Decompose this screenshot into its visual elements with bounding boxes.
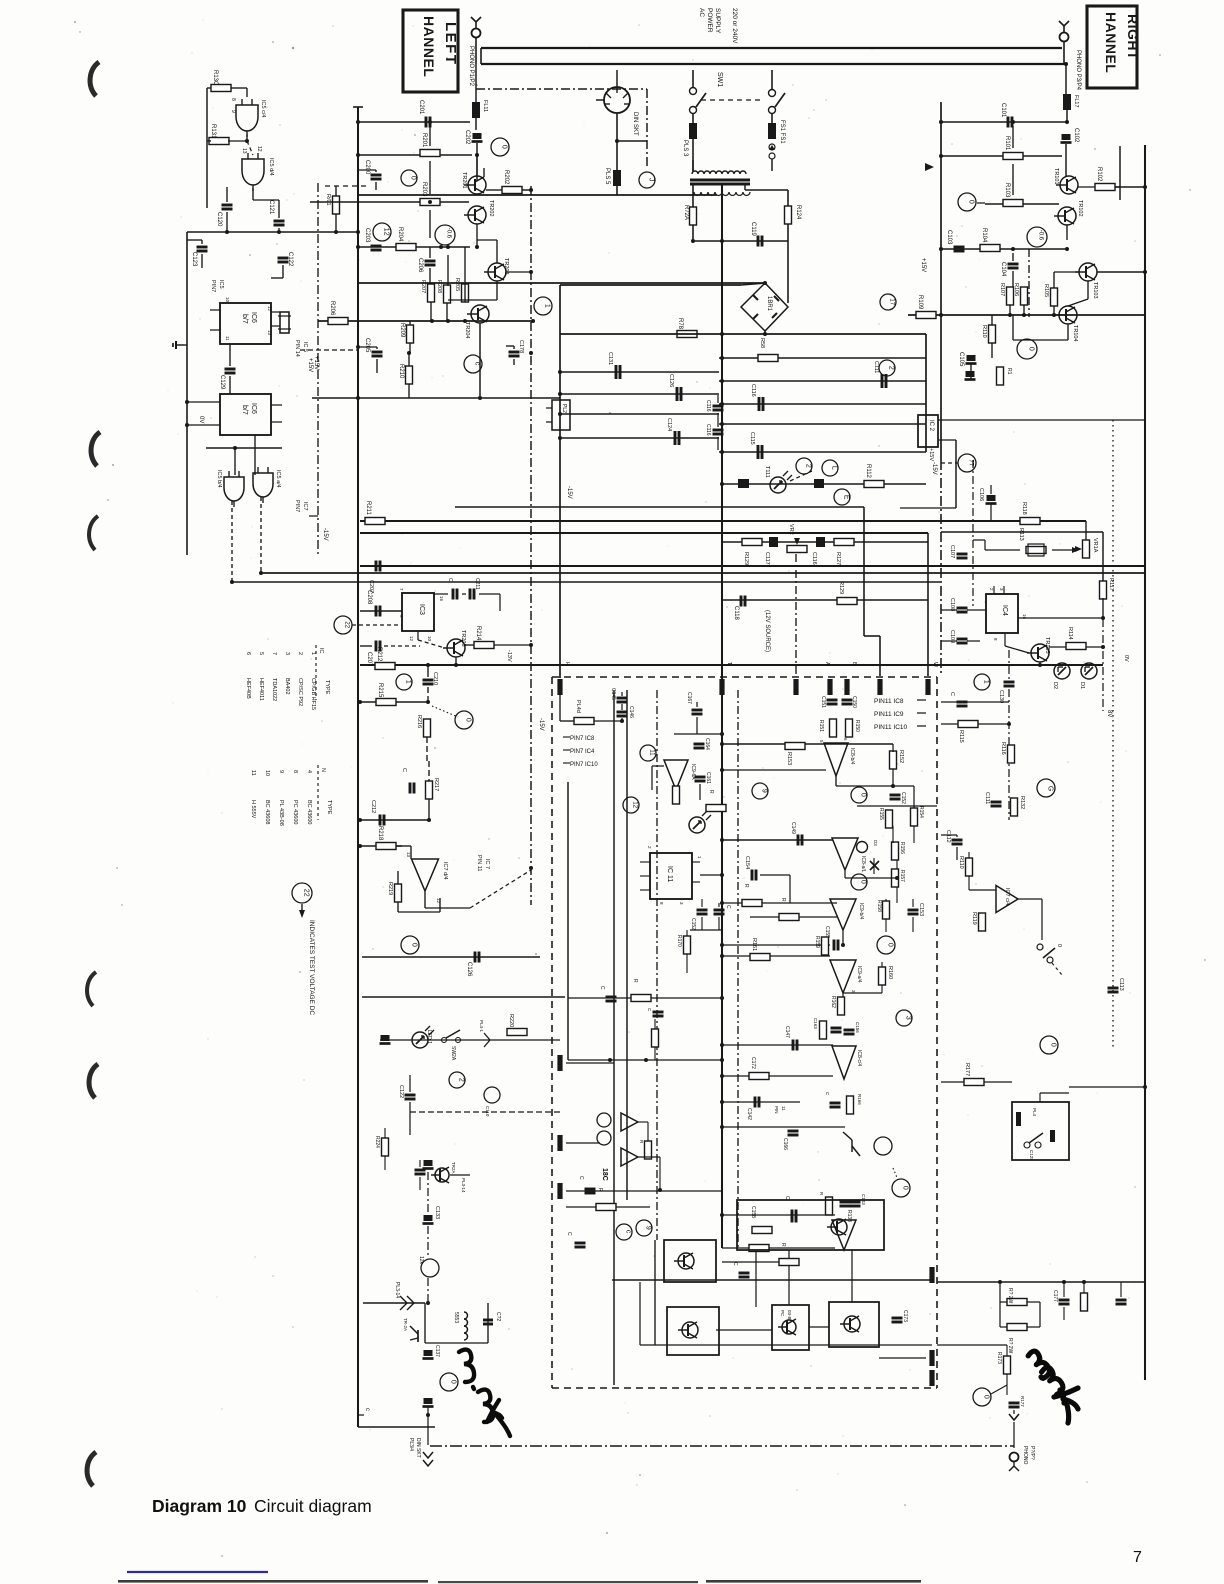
wire opamp to x531	[425, 866, 533, 908]
tank coil S553	[453, 1312, 468, 1340]
wire y770 row	[720, 768, 826, 772]
svg-text:C120: C120	[216, 212, 222, 227]
capacitor C155	[824, 926, 838, 951]
svg-text:R: R	[743, 884, 749, 888]
wire TR203 links	[477, 224, 533, 274]
svg-text:IC5 d/4: IC5 d/4	[268, 158, 274, 176]
svg-text:PIN11 IC10: PIN11 IC10	[874, 724, 908, 731]
wire mains drop a	[692, 70, 694, 124]
dashdot rail x738	[737, 690, 739, 1250]
box output pair left	[664, 1240, 716, 1282]
wire bus band y533	[360, 532, 928, 534]
svg-text:PHONO: PHONO	[1022, 1446, 1028, 1464]
svg-text:7: 7	[399, 588, 404, 591]
resistor R152	[890, 750, 905, 769]
switch SW2A	[442, 1030, 461, 1061]
svg-text:22: 22	[303, 889, 310, 897]
svg-text:HEF40B: HEF40B	[245, 678, 251, 699]
svg-text:12: 12	[256, 146, 262, 152]
label IC5 d/4	[268, 158, 274, 176]
svg-text:R115: R115	[958, 730, 964, 743]
svg-text:B: B	[851, 662, 857, 666]
wire opamp3 out	[845, 826, 914, 903]
svg-text:C113: C113	[1118, 978, 1124, 991]
svg-text:CP/SC P92: CP/SC P92	[297, 678, 303, 706]
wire C105 stub	[970, 315, 972, 380]
crystal C132	[278, 312, 291, 333]
svg-text:TDA1022: TDA1022	[271, 678, 277, 701]
svg-text:R173: R173	[996, 1352, 1002, 1364]
capacitor C133	[423, 1206, 441, 1224]
svg-text:R177: R177	[1020, 1396, 1025, 1407]
wire R218 to opamp	[396, 846, 411, 859]
pin T	[719, 662, 732, 695]
capacitor C161	[695, 772, 712, 784]
wire C109 link	[941, 640, 980, 642]
gate IC5 a/4	[253, 467, 273, 503]
svg-text:16: 16	[439, 596, 444, 602]
svg-text:TR102: TR102	[1077, 200, 1083, 217]
svg-text:C200: C200	[364, 160, 370, 175]
wire dash 22 to IC3	[352, 624, 402, 626]
resistor R212	[375, 647, 395, 670]
capacitor C112	[945, 830, 963, 844]
wire y846	[358, 844, 402, 848]
resistor R112	[864, 464, 884, 488]
resistor R184b	[652, 1019, 659, 1060]
svg-text:PHONO P3/P4: PHONO P3/P4	[1075, 50, 1081, 91]
svg-text:c: c	[625, 1230, 632, 1234]
IC3 box	[402, 593, 434, 631]
svg-text:R102: R102	[1096, 167, 1102, 182]
svg-text:IC 11: IC 11	[666, 866, 673, 882]
svg-text:PIN 11: PIN 11	[476, 855, 482, 871]
resistor R214	[474, 626, 494, 649]
RIGHT CHANNEL text	[1103, 12, 1141, 73]
svg-text:C178: C178	[518, 340, 524, 353]
label IC5 b/4	[216, 470, 222, 488]
resistor R161	[750, 938, 770, 961]
svg-text:220 or 240V: 220 or 240V	[731, 8, 738, 44]
resistor R159	[814, 936, 829, 955]
wire top phono line 1	[481, 47, 1062, 49]
svg-text:R129: R129	[743, 552, 749, 565]
IC6 divider box 1	[220, 303, 271, 344]
svg-text:C: C	[578, 1176, 584, 1180]
svg-text:R215: R215	[377, 683, 383, 698]
wire dash y350 pin14	[300, 349, 357, 351]
LED1	[412, 1026, 434, 1048]
label PIN7 IC7	[294, 500, 318, 516]
circled node 0i	[892, 1179, 910, 1197]
pin B	[844, 662, 857, 695]
label -13V	[506, 650, 512, 662]
binding mark 3	[89, 516, 98, 550]
svg-text:R103: R103	[1004, 183, 1010, 198]
resistor R217	[426, 778, 440, 799]
svg-text:7: 7	[1133, 1549, 1142, 1566]
svg-text:C116: C116	[750, 384, 756, 397]
svg-text:C152: C152	[690, 918, 696, 930]
wire supply rail y394	[558, 392, 719, 396]
resistor R108	[997, 367, 1013, 385]
capacitor C118b block	[814, 479, 824, 488]
svg-text:12k: 12k	[418, 1256, 424, 1265]
svg-text:2: 2	[888, 366, 895, 370]
wire C200 stub	[358, 170, 376, 190]
svg-text:R201: R201	[421, 133, 427, 148]
wire jack-R drop	[1063, 42, 1065, 64]
label 8V	[1106, 710, 1112, 717]
wire bus band y573	[261, 572, 1145, 574]
wire switch out	[1052, 963, 1062, 975]
svg-text:R177: R177	[964, 1063, 970, 1076]
svg-text:PLS 5: PLS 5	[604, 168, 610, 185]
svg-text:6: 6	[843, 738, 848, 741]
circled node 0j	[1040, 1036, 1058, 1054]
resistor R119b	[971, 912, 986, 931]
svg-text:DIN SKT: DIN SKT	[415, 1438, 421, 1458]
wire y1060 row	[568, 1058, 724, 1062]
pin B2	[877, 679, 882, 695]
svg-text:HANNEL: HANNEL	[421, 16, 437, 77]
svg-text:IC7: IC7	[302, 502, 308, 511]
phono socket P1/P2 (left input)	[471, 17, 481, 38]
label PIN11 IC9	[874, 711, 926, 718]
svg-text:11: 11	[250, 770, 256, 776]
label DIN SKT	[632, 112, 638, 136]
svg-text:VR2: VR2	[788, 524, 794, 535]
svg-text:10: 10	[225, 297, 230, 303]
gate IC5 c/4	[236, 99, 258, 137]
wire right stage verticals	[1011, 120, 1088, 340]
svg-text:PL3-14: PL3-14	[461, 1178, 466, 1193]
svg-text:C101: C101	[1000, 103, 1006, 118]
wire y917 row	[750, 916, 837, 918]
svg-text:C152: C152	[900, 792, 906, 804]
wire supply rail y424	[719, 422, 926, 426]
svg-text:R58: R58	[759, 338, 765, 348]
transistor TR201	[461, 172, 486, 194]
relay box	[1012, 1102, 1069, 1160]
svg-text:PIN7: PIN7	[210, 280, 216, 292]
label C119	[750, 222, 756, 237]
resistor R224	[374, 1136, 389, 1156]
label +15V a	[313, 356, 319, 370]
resistor R173	[996, 1352, 1011, 1374]
svg-text:FL11: FL11	[482, 100, 488, 112]
svg-text:R? 2W: R? 2W	[1007, 1288, 1013, 1304]
capacitor C108	[949, 598, 968, 612]
svg-text:R216: R216	[416, 715, 422, 728]
circled node E	[834, 489, 850, 505]
wire C120 link	[207, 187, 227, 232]
wire y903 row	[720, 901, 837, 905]
label SW1	[716, 72, 723, 87]
svg-text:R170: R170	[676, 935, 682, 947]
IC6 divider box 2	[220, 394, 271, 435]
svg-text:INDICATES TEST VOLTAGE DC: INDICATES TEST VOLTAGE DC	[308, 920, 315, 1015]
capacitor C104	[1000, 262, 1019, 277]
wire box column b	[788, 1250, 790, 1305]
svg-text:R119: R119	[971, 912, 977, 925]
resistor R127	[834, 539, 854, 566]
resistor R162	[830, 996, 845, 1015]
box output pair right2	[829, 1302, 879, 1347]
wire box column a	[755, 1250, 757, 1307]
IC2 box	[918, 415, 938, 447]
capacitor C166	[782, 1131, 799, 1150]
gate tri 2	[621, 1148, 638, 1166]
wire caps under IC11	[690, 899, 722, 930]
svg-text:A: A	[824, 662, 830, 666]
svg-text:R118: R118	[1021, 502, 1027, 515]
svg-text:10: 10	[264, 770, 270, 776]
wire R136 drop	[334, 186, 338, 234]
resistor R158	[876, 900, 890, 919]
svg-text:C210: C210	[432, 672, 438, 685]
svg-text:C107: C107	[949, 545, 955, 558]
transistor pair naked	[843, 1132, 860, 1156]
dashdot x428	[427, 1172, 429, 1303]
svg-text:C153: C153	[918, 903, 924, 916]
wire IC4 out y618	[1018, 616, 1105, 620]
svg-text:IC5 a/4: IC5 a/4	[275, 470, 281, 488]
svg-text:0: 0	[450, 1380, 457, 1384]
wire mains line y195	[358, 194, 717, 196]
wire left main bus	[353, 107, 363, 1427]
capacitor C146	[617, 706, 635, 718]
svg-text:CP/GB HF15: CP/GB HF15	[310, 678, 316, 710]
svg-text:R217: R217	[433, 778, 439, 791]
wire 77 link	[941, 462, 958, 464]
svg-text:C119: C119	[750, 222, 756, 237]
resistor R116	[1000, 742, 1015, 763]
wire x1120 stub	[1115, 146, 1120, 200]
label PIN 14 IC 5	[294, 340, 308, 357]
wire y1305 stub	[716, 1327, 829, 1330]
svg-text:PLS 3: PLS 3	[682, 140, 688, 157]
label DIN out	[408, 1438, 421, 1458]
wire y1102 row	[720, 1100, 800, 1104]
wire 0k link	[991, 1385, 1007, 1394]
svg-text:C205: C205	[364, 338, 370, 353]
resistor R210	[398, 364, 413, 384]
transistor TR101	[1053, 168, 1078, 194]
resistor R124	[785, 206, 792, 224]
capacitor C127	[949, 692, 968, 706]
opamp IC10 a	[832, 1220, 856, 1250]
resistor R206	[328, 301, 348, 325]
wire TR204 emitter down	[479, 323, 481, 398]
note text INDICATES TEST VOLTAGE DC	[308, 920, 315, 1015]
capacitor C132b	[668, 374, 681, 401]
svg-text:C123: C123	[191, 252, 197, 267]
label IC8-a/L	[860, 856, 866, 873]
caps x718 pair	[705, 400, 724, 436]
svg-text:R? 2W: R? 2W	[1007, 1338, 1013, 1354]
IC3 pin labels	[399, 588, 444, 642]
resistor R204	[396, 227, 416, 251]
circled node 12a	[373, 223, 391, 241]
IC11 pins	[640, 846, 702, 905]
svg-text:E: E	[843, 495, 850, 500]
page number 7	[1133, 1549, 1142, 1566]
resistor R215	[376, 683, 396, 706]
label IC6 b/7 (1)	[241, 312, 257, 324]
wire caps column	[620, 692, 624, 723]
svg-text:C131: C131	[607, 352, 613, 365]
wire R170 stub	[686, 930, 688, 973]
wire y1040	[380, 1039, 560, 1041]
wire y600 branch	[722, 599, 928, 601]
svg-text:R211: R211	[365, 501, 371, 516]
circled node -06b	[1027, 227, 1047, 247]
circled 181	[597, 1113, 611, 1145]
svg-text:C203: C203	[364, 228, 370, 243]
capacitor C213	[401, 768, 414, 794]
opamp IC9 b/4	[830, 899, 864, 930]
wire supply row y665	[360, 664, 1103, 666]
capacitor C201	[418, 100, 430, 128]
wire y1358 stub	[879, 1357, 926, 1359]
wire R112 out	[884, 483, 926, 485]
wire y702 right	[941, 701, 1009, 703]
bottom scan strip b	[438, 1581, 698, 1583]
svg-text:PIN: PIN	[774, 1106, 779, 1114]
wire dashdot test line top	[476, 88, 647, 90]
capacitor C116 block	[811, 537, 825, 565]
svg-text:R202: R202	[503, 170, 509, 185]
node y398 joins	[356, 396, 482, 400]
pin right b	[929, 1350, 934, 1366]
wire TR101 collector	[1078, 185, 1147, 189]
svg-text:C137: C137	[434, 1345, 440, 1357]
svg-text:TR103: TR103	[1092, 282, 1098, 299]
wire y232 link	[187, 230, 360, 234]
svg-text:R166: R166	[857, 1094, 862, 1105]
svg-text:C111: C111	[984, 792, 990, 804]
circled node 0g	[851, 874, 867, 890]
svg-text:R113: R113	[1018, 528, 1024, 541]
resistor R2W a	[1007, 1288, 1027, 1306]
svg-text:T111: T111	[764, 466, 770, 478]
svg-text:1BR1: 1BR1	[766, 296, 772, 312]
circled node T2	[974, 674, 990, 690]
gate IC5 d/4	[242, 153, 264, 191]
svg-text:R158: R158	[876, 900, 882, 912]
label PHONO out	[1022, 1446, 1035, 1464]
svg-text:C116: C116	[705, 424, 711, 436]
opamp IC9 6A	[664, 760, 696, 790]
wire x362 lower	[361, 957, 363, 1303]
capacitor C107	[949, 545, 968, 558]
resistor R110b	[958, 856, 973, 876]
diode pair X	[870, 858, 879, 874]
circled node 9a	[752, 783, 768, 799]
svg-text:R205: R205	[454, 278, 460, 291]
resistor R153	[785, 743, 805, 766]
svg-text:DIN SKT: DIN SKT	[632, 112, 638, 136]
svg-text:C: C	[949, 692, 955, 696]
wire y1345 right stub	[937, 1344, 1007, 1346]
wire y1345 center	[640, 1344, 932, 1346]
transistor TR103	[1075, 263, 1098, 299]
LEFT CHANNEL text	[421, 16, 459, 77]
circled node 17	[880, 294, 896, 310]
wire jack-L to stage	[475, 64, 477, 130]
capacitor C130	[998, 682, 1015, 703]
svg-text:C150: C150	[851, 696, 857, 708]
dashdot x1103b	[1102, 619, 1104, 711]
svg-text:R138: R138	[846, 1210, 852, 1222]
wire box column c	[851, 1250, 853, 1302]
wire y1215 row	[720, 1213, 835, 1217]
wire y1303	[363, 1301, 430, 1305]
wire y1248 row	[722, 1247, 835, 1249]
wire rail corner x560	[559, 285, 561, 678]
pin H	[557, 662, 570, 695]
capacitor C153b block	[738, 479, 749, 488]
capacitor C117 block	[764, 537, 778, 565]
circled node 2c	[449, 1072, 465, 1088]
svg-text:R: R	[780, 898, 786, 902]
svg-text:TR105: TR105	[1044, 637, 1050, 654]
connector chevron Y	[1009, 1414, 1019, 1420]
wire C205 link	[356, 345, 377, 373]
capacitor C149b	[578, 1176, 596, 1193]
pin VR2 in	[793, 679, 798, 695]
label -15V b	[538, 718, 544, 731]
wire y122 C201	[356, 120, 470, 124]
svg-text:PIN11 IC8: PIN11 IC8	[874, 698, 904, 705]
svg-text:0: 0	[1050, 1043, 1057, 1047]
svg-text:TR101: TR101	[1053, 168, 1059, 185]
label BR1	[766, 296, 772, 312]
svg-text:IC8-b/4: IC8-b/4	[849, 748, 855, 765]
circled C110	[484, 1087, 500, 1117]
label AC POWER SUPPLY	[698, 8, 721, 34]
svg-text:R207: R207	[420, 280, 426, 293]
wire C177 stub	[1062, 1280, 1066, 1320]
RIGHT CHANNEL label box	[1087, 6, 1137, 88]
resistor R106	[1013, 283, 1028, 305]
svg-text:C103: C103	[946, 230, 952, 245]
svg-text:+15V: +15V	[307, 358, 313, 372]
svg-text:PL2: PL2	[561, 404, 567, 413]
pin right c	[929, 1370, 934, 1386]
capacitor C126	[466, 952, 479, 978]
wire R224 stub	[384, 1128, 386, 1170]
svg-text:R117: R117	[1108, 578, 1114, 591]
wire C207 link	[360, 645, 420, 647]
capacitor C205	[364, 338, 383, 356]
tank circuit frame	[425, 1303, 488, 1343]
wire secondary left x693	[692, 184, 694, 241]
svg-text:G: G	[1047, 786, 1054, 791]
svg-text:IC5 b/4: IC5 b/4	[216, 470, 222, 488]
wire TR204 base	[431, 284, 471, 321]
svg-text:PIN7 IC4: PIN7 IC4	[570, 749, 595, 755]
wire R214 link	[465, 643, 533, 647]
wire transformer left leg	[692, 160, 694, 171]
svg-text:R218: R218	[377, 826, 383, 841]
wire R117b to row	[1102, 598, 1104, 618]
resistor R149	[742, 884, 762, 907]
resistor R13C	[211, 70, 231, 92]
svg-text:0: 0	[887, 943, 894, 947]
wire R113 arrow	[1052, 547, 1079, 553]
